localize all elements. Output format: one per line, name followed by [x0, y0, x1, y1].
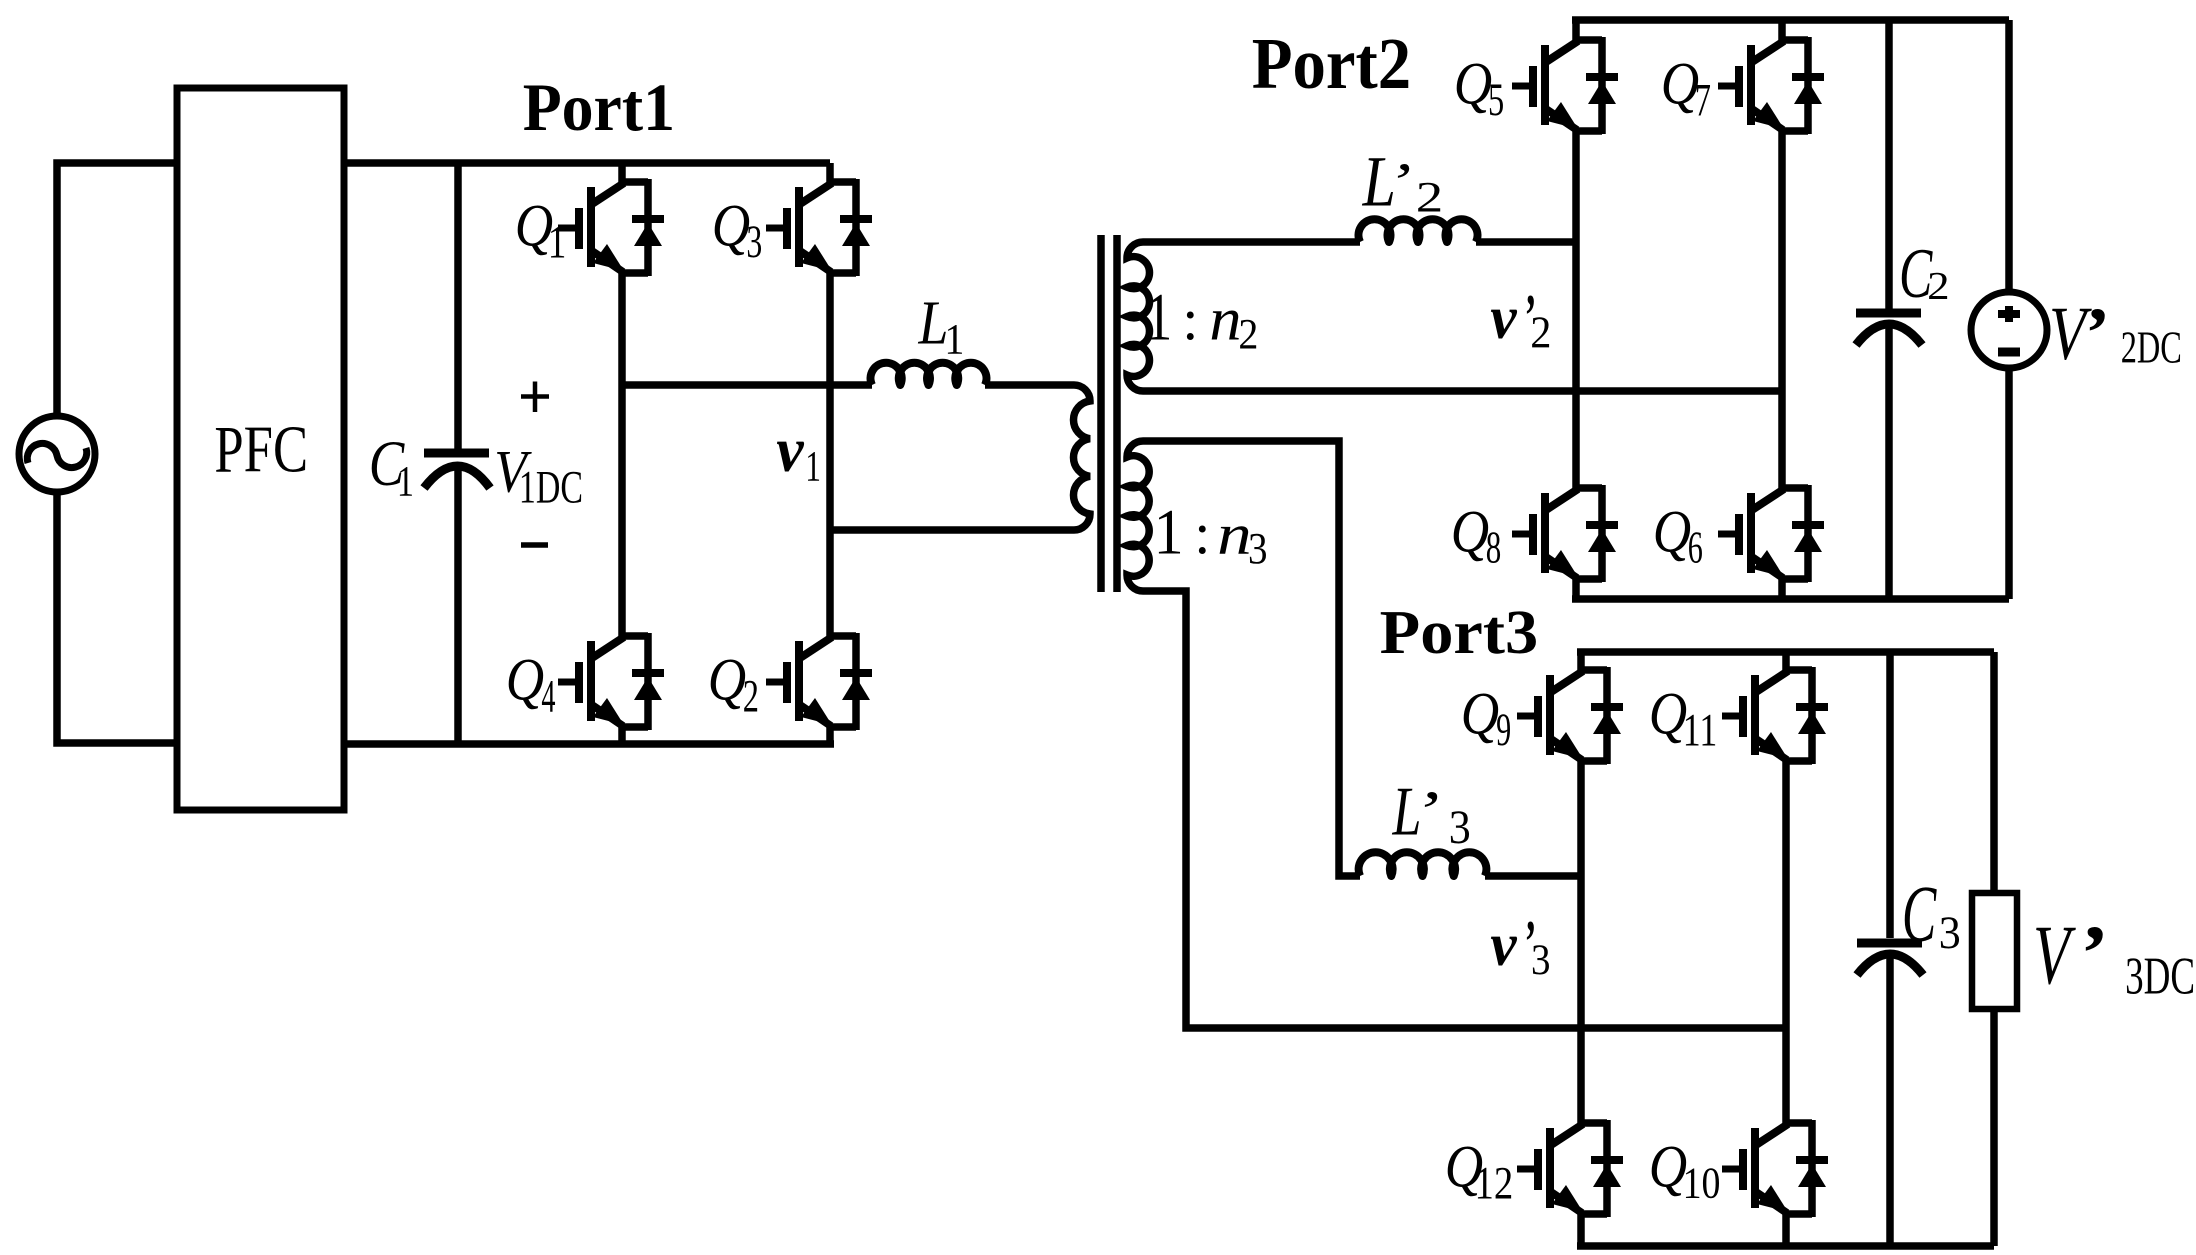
svg-text:7: 7 — [1695, 75, 1711, 127]
svg-text:’: ’ — [2076, 910, 2106, 997]
wire port3 left leg — [1577, 652, 1585, 1246]
transistor Q1 — [515, 179, 664, 276]
svg-text::: : — [1182, 286, 1198, 352]
wire port1 top rail — [344, 159, 830, 167]
svg-text:3DC: 3DC — [2125, 948, 2195, 1006]
label Port3 — [1380, 599, 1539, 667]
svg-text:2: 2 — [743, 671, 759, 723]
wire n3 top to L'3 — [1143, 441, 1360, 876]
capacitor C1 — [369, 163, 490, 744]
svg-text:4: 4 — [541, 671, 555, 723]
transistor Q10 — [1649, 1120, 1828, 1217]
wire L'3 to port3 left leg — [1485, 872, 1581, 880]
svg-text:2DC: 2DC — [2121, 322, 2182, 373]
wire port2 left leg — [1572, 20, 1580, 599]
svg-text:1: 1 — [805, 443, 821, 490]
svg-text:3: 3 — [746, 216, 762, 267]
label 1:n2 — [1145, 280, 1258, 359]
wire port3 right leg — [1782, 652, 1790, 1246]
wire port2 top rail — [1572, 16, 2009, 24]
wire port3 bottom rail — [1577, 1242, 1994, 1250]
ac source — [19, 416, 95, 492]
svg-text:2: 2 — [1530, 308, 1551, 358]
svg-text:1: 1 — [1145, 280, 1172, 355]
svg-text:Port2: Port2 — [1252, 23, 1412, 104]
svg-text:1: 1 — [1154, 496, 1184, 568]
svg-text:v: v — [776, 415, 804, 485]
wire n2 bottom to port2 right leg — [1143, 387, 1782, 395]
inductor L'2 — [1359, 142, 1478, 242]
svg-text:1: 1 — [397, 458, 414, 505]
svg-text:Q: Q — [506, 646, 544, 713]
transistor Q4 — [506, 633, 664, 730]
wire port2 bottom rail — [1572, 595, 2009, 603]
svg-text:3: 3 — [1248, 523, 1268, 573]
transformer secondary winding n3 — [1127, 441, 1149, 591]
capacitor C2 — [1856, 20, 1950, 599]
svg-text:’: ’ — [2081, 293, 2107, 372]
svg-text:9: 9 — [1496, 704, 1511, 755]
svg-text:5: 5 — [1488, 74, 1504, 125]
node v'3 — [1490, 909, 1550, 985]
transistor Q6 — [1653, 485, 1824, 582]
svg-text:v: v — [1490, 285, 1517, 352]
svg-text:1DC: 1DC — [519, 463, 583, 514]
label 1:n3 — [1154, 496, 1268, 573]
svg-text:2: 2 — [1416, 173, 1444, 221]
wire L'2 to port2 left leg — [1476, 238, 1576, 246]
svg-text:n: n — [1217, 502, 1252, 567]
svg-text:3: 3 — [1939, 907, 1961, 958]
inductor L1 — [871, 288, 987, 385]
svg-text:12: 12 — [1475, 1158, 1514, 1209]
wire port1 bottom rail — [344, 740, 834, 748]
svg-text:Q: Q — [1649, 680, 1687, 747]
svg-text:Q: Q — [712, 192, 750, 259]
wire port3 top rail — [1577, 648, 1994, 656]
wire port2 right leg — [1778, 20, 1786, 599]
wire ac to pfc — [57, 163, 177, 743]
transistor Q7 — [1661, 37, 1824, 134]
wire port1 right leg — [826, 163, 834, 744]
label Port2 — [1252, 23, 1412, 104]
wire n2 top to L'2 — [1143, 238, 1360, 246]
svg-text:2: 2 — [1927, 264, 1950, 307]
transistor Q3 — [712, 179, 872, 276]
capacitor C3 — [1857, 652, 1961, 1246]
wire n3 bottom to port3 right leg — [1143, 591, 1786, 1028]
svg-text:Port1: Port1 — [523, 69, 675, 145]
svg-text:8: 8 — [1486, 522, 1502, 573]
transformer primary winding — [1073, 385, 1090, 530]
svg-text:Q: Q — [1461, 680, 1499, 747]
svg-text:11: 11 — [1683, 705, 1718, 756]
transistor Q11 — [1649, 667, 1828, 764]
label Port1 — [523, 69, 675, 145]
transformer core — [1101, 235, 1117, 592]
svg-text:Q: Q — [1653, 498, 1691, 565]
transistor Q5 — [1454, 37, 1618, 134]
label + V1DC - — [494, 382, 583, 546]
inductor L'3 — [1359, 773, 1487, 876]
transistor Q2 — [708, 633, 872, 730]
svg-text:Q: Q — [1661, 50, 1699, 117]
dc source V'2DC — [1971, 20, 2182, 599]
svg-text::: : — [1194, 500, 1210, 566]
svg-text:1: 1 — [548, 217, 567, 268]
transformer secondary winding n2 — [1127, 242, 1149, 391]
svg-text:PFC: PFC — [214, 413, 308, 486]
block PFC — [177, 88, 344, 810]
svg-text:3: 3 — [1449, 801, 1471, 854]
svg-text:n: n — [1209, 287, 1241, 354]
svg-text:Port3: Port3 — [1380, 599, 1539, 667]
svg-text:2: 2 — [1238, 310, 1258, 358]
transistor Q9 — [1461, 667, 1623, 764]
svg-text:Q: Q — [1649, 1133, 1687, 1200]
svg-text:’: ’ — [1387, 152, 1411, 212]
node v'2 — [1490, 283, 1551, 358]
svg-text:Q: Q — [1451, 498, 1489, 565]
svg-text:v: v — [1490, 912, 1517, 979]
svg-text:1: 1 — [944, 316, 964, 363]
transistor Q8 — [1451, 485, 1618, 582]
wire v1 to L1 — [622, 381, 872, 389]
svg-text:3: 3 — [1531, 937, 1551, 984]
svg-text:C: C — [1902, 871, 1937, 959]
svg-text:’: ’ — [1413, 779, 1440, 844]
wire port1 left leg — [618, 163, 626, 744]
svg-text:Q: Q — [1454, 50, 1492, 117]
wire L1 to transformer — [985, 381, 1074, 389]
node v1 — [776, 415, 821, 490]
svg-text:6: 6 — [1688, 522, 1703, 573]
transistor Q12 — [1445, 1120, 1623, 1217]
wire return to transformer primary — [830, 526, 1074, 534]
svg-text:V: V — [2033, 908, 2076, 1002]
svg-text:Q: Q — [708, 646, 746, 713]
resistor load V'3DC — [1972, 652, 2195, 1246]
svg-text:10: 10 — [1683, 1158, 1721, 1208]
